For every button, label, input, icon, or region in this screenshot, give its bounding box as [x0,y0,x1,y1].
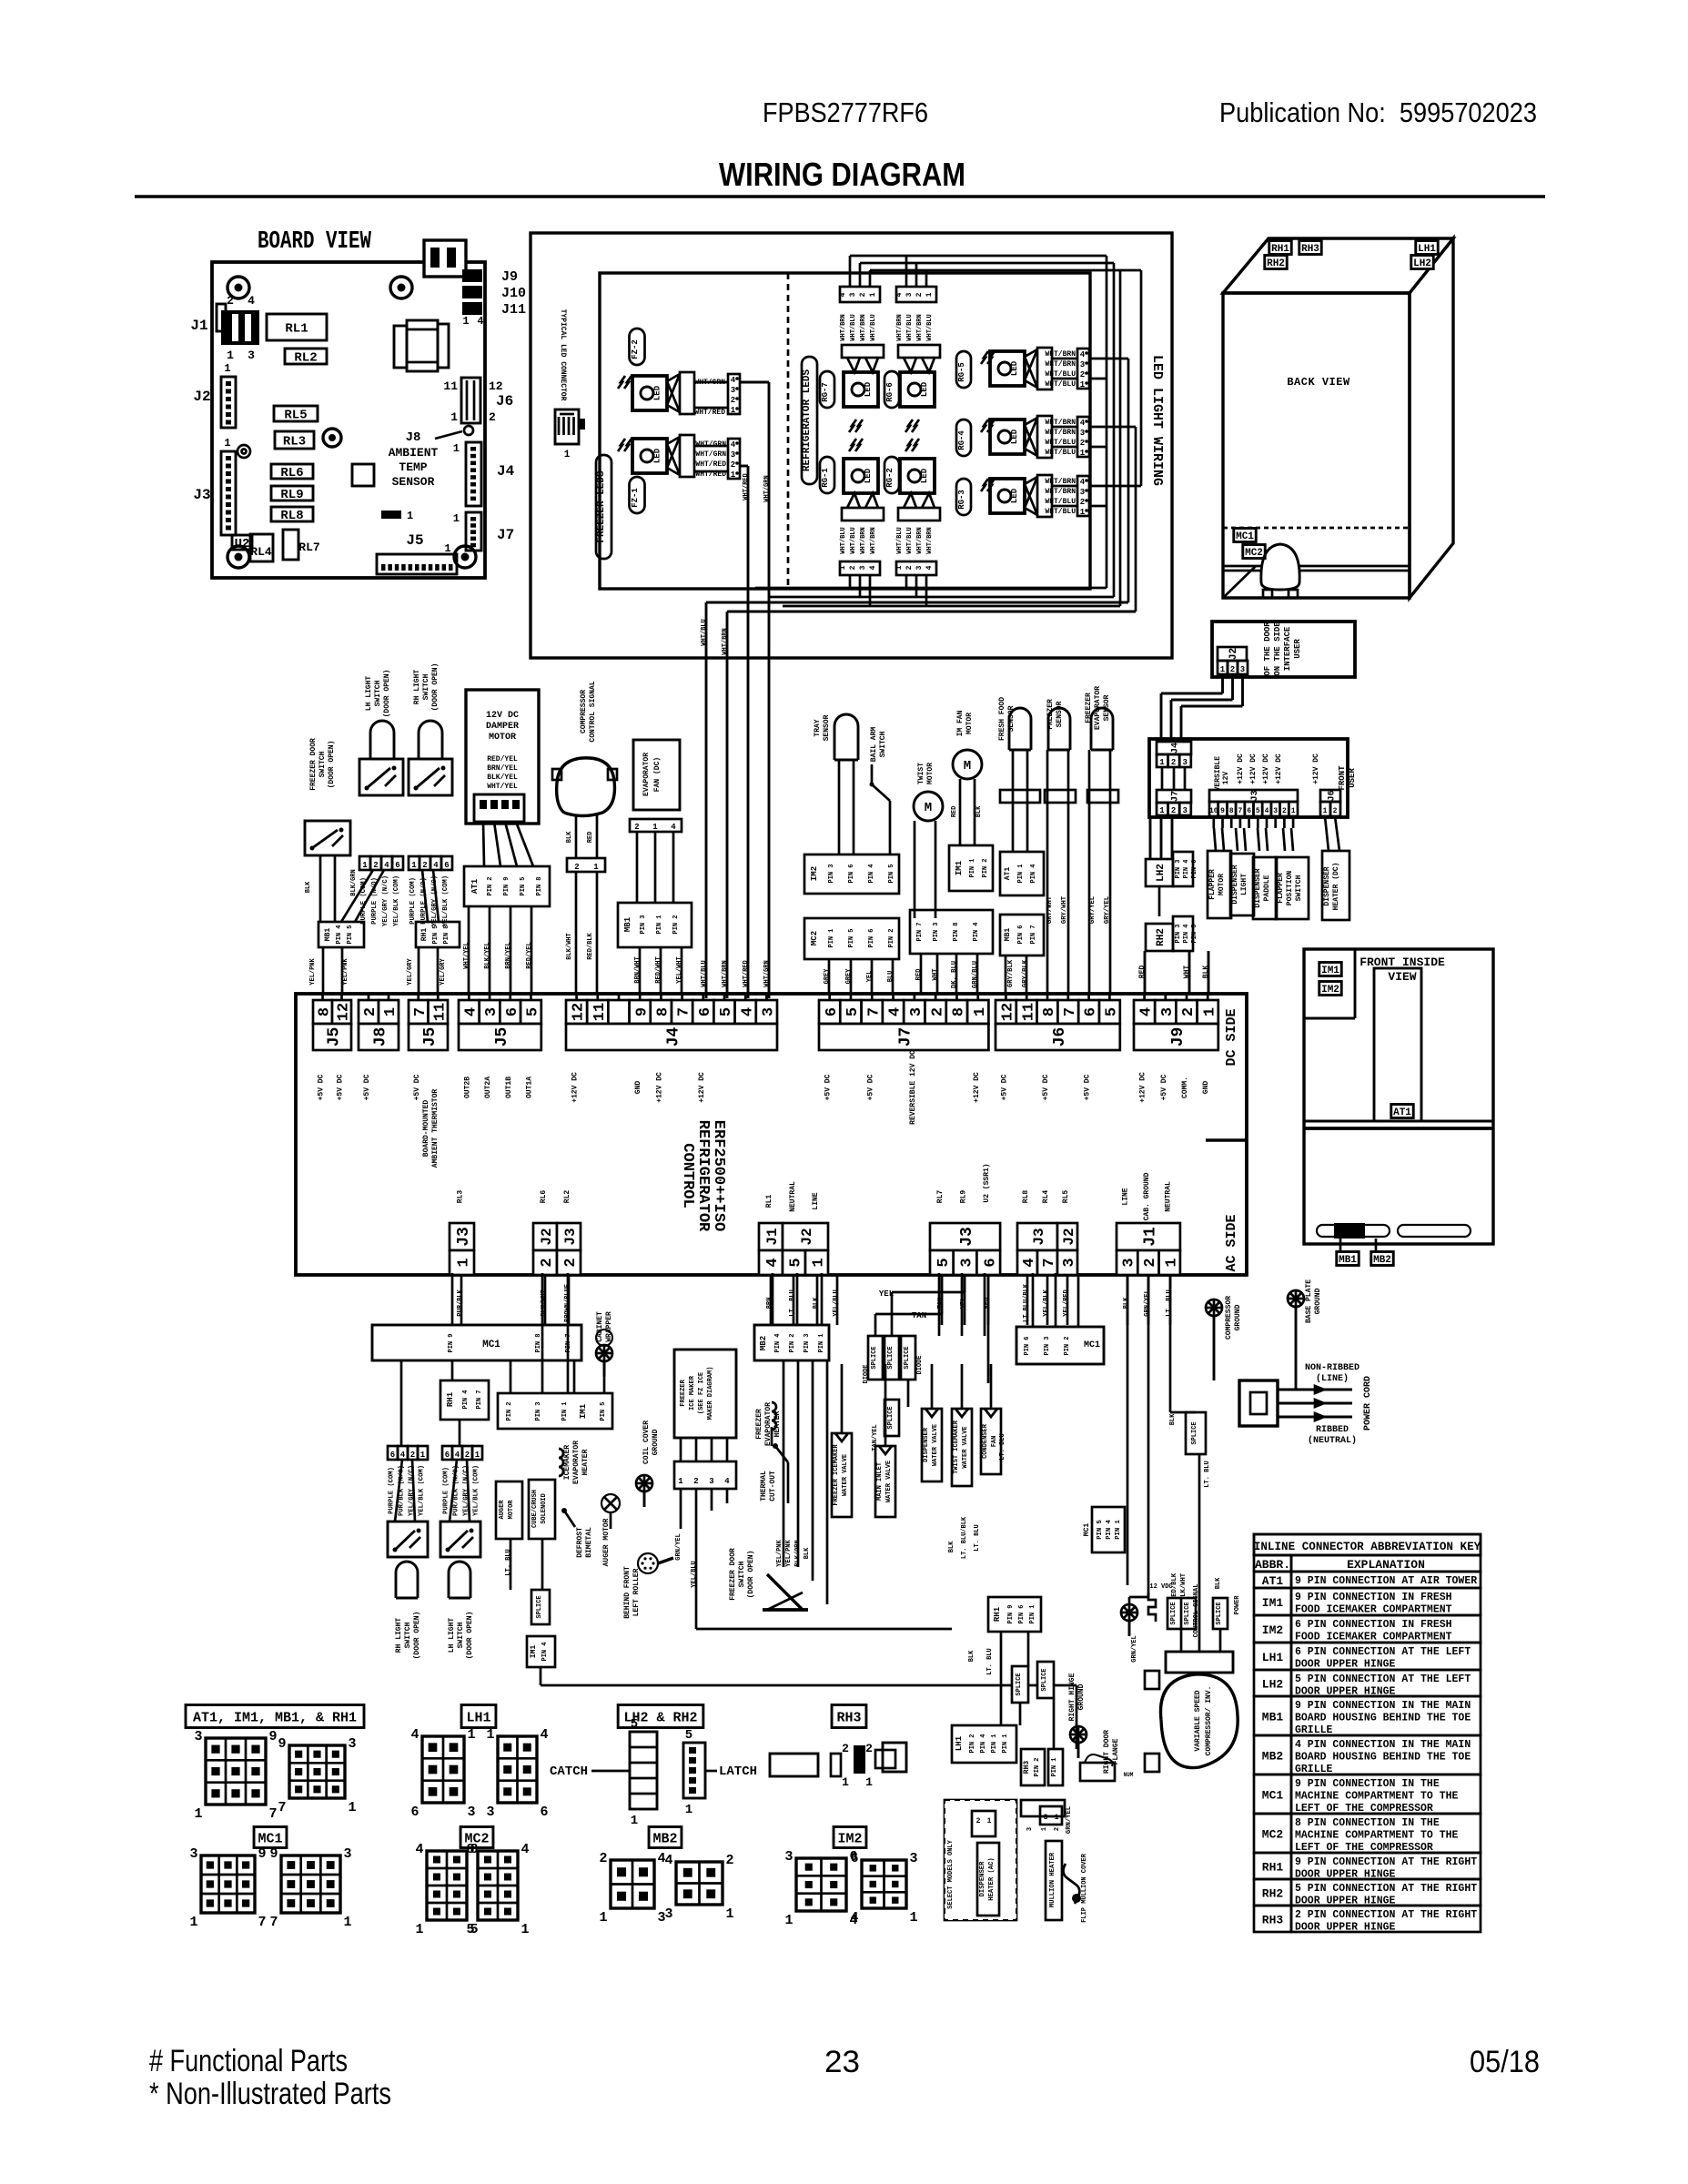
svg-text:SPLICE: SPLICE [536,1595,543,1618]
svg-text:5 PIN CONNECTION AT THE LEFT: 5 PIN CONNECTION AT THE LEFT [1295,1673,1471,1685]
svg-text:1: 1 [1291,807,1296,815]
svg-text:GREY: GREY [824,968,831,985]
svg-text:PIN 2: PIN 2 [1064,1336,1071,1355]
svg-text:2: 2 [422,861,427,870]
svg-text:WHT/BLU: WHT/BLU [1045,449,1076,457]
svg-text:GROUND: GROUND [1077,1683,1086,1710]
svg-text:J6: J6 [1051,1027,1069,1047]
svg-text:SWITCH: SWITCH [457,1622,465,1648]
svg-text:11: 11 [591,1003,609,1021]
svg-text:4: 4 [731,440,736,450]
svg-text:PIN 5: PIN 5 [347,925,354,944]
svg-text:M: M [964,759,971,773]
svg-text:RH1: RH1 [993,1606,1002,1622]
svg-text:WHT/BRN: WHT/BRN [870,527,877,553]
svg-text:WHT/BLU: WHT/BLU [896,527,904,553]
svg-text:TYPICAL LED CONNECTOR: TYPICAL LED CONNECTOR [559,309,567,401]
svg-text:ICEMAKER: ICEMAKER [563,1445,571,1481]
svg-text:USER: USER [1293,639,1302,659]
svg-text:RH2: RH2 [1156,928,1167,946]
svg-text:1: 1 [725,1906,733,1922]
svg-text:4: 4 [671,823,676,832]
svg-text:1: 1 [631,1814,638,1828]
svg-text:4: 4 [664,1853,672,1868]
svg-text:10: 10 [1209,807,1218,815]
svg-text:YEL/GRY (N/C): YEL/GRY (N/C) [382,875,389,926]
svg-text:J6: J6 [1328,790,1338,801]
svg-text:PIN 3: PIN 3 [1175,924,1182,943]
svg-text:1: 1 [224,362,230,375]
svg-text:3: 3 [1061,1258,1078,1267]
svg-text:1: 1 [521,1922,529,1937]
svg-text:RL4: RL4 [250,545,272,559]
svg-text:GRY/BLK: GRY/BLK [1007,959,1015,987]
svg-text:7: 7 [1041,1258,1058,1267]
svg-text:2: 2 [362,1007,379,1016]
svg-text:WHT/RED: WHT/RED [743,473,750,500]
svg-text:6: 6 [395,861,399,870]
svg-text:FREEZER LEDS: FREEZER LEDS [596,470,607,543]
svg-text:PIN 1: PIN 1 [818,1333,825,1352]
svg-text:4: 4 [1021,1258,1038,1267]
svg-text:5 PIN CONNECTION AT THE RIGHT: 5 PIN CONNECTION AT THE RIGHT [1295,1883,1477,1895]
svg-text:BASE PLATE: BASE PLATE [1305,1279,1313,1323]
svg-text:4: 4 [1080,419,1086,428]
svg-text:FPBS2777RF6: FPBS2777RF6 [763,96,928,128]
svg-text:1: 1 [420,1451,426,1460]
svg-text:SWITCH: SWITCH [879,731,887,757]
svg-text:J2: J2 [1228,648,1239,660]
svg-text:1: 1 [784,1913,793,1928]
svg-text:RL3: RL3 [283,435,306,450]
svg-text:11: 11 [1020,1003,1037,1021]
svg-text:BRN/WHT: BRN/WHT [634,956,642,983]
svg-text:PIN 4: PIN 4 [336,925,343,944]
svg-text:2: 2 [562,1258,580,1267]
svg-text:SPLICE: SPLICE [871,1346,878,1369]
svg-text:YEL/BLK (COM): YEL/BLK (COM) [442,875,450,926]
svg-text:OUT2A: OUT2A [484,1077,492,1098]
svg-text:GRN/BLU: GRN/BLU [972,961,979,988]
svg-text:WATER VALVE: WATER VALVE [842,1454,849,1496]
svg-text:PIN 2: PIN 2 [969,1734,976,1753]
svg-text:1: 1 [456,1258,473,1267]
svg-text:3: 3 [849,292,857,297]
svg-text:(DOOR OPEN): (DOOR OPEN) [413,1612,421,1660]
svg-text:9: 9 [278,1736,286,1752]
svg-text:MB1: MB1 [623,916,632,932]
svg-text:NUM: NUM [1124,1772,1134,1778]
svg-text:RH3: RH3 [1262,1914,1284,1927]
svg-text:BRN/YEL: BRN/YEL [505,942,512,968]
svg-text:RED/YEL: RED/YEL [487,755,518,763]
svg-text:1: 1 [1201,1007,1218,1016]
svg-text:FLAPPER: FLAPPER [1277,873,1285,904]
svg-text:3: 3 [486,1805,494,1820]
svg-text:3: 3 [1080,488,1085,497]
svg-text:5: 5 [466,1922,474,1937]
svg-text:2: 2 [599,1851,607,1866]
svg-text:1: 1 [453,512,460,525]
svg-text:LH2: LH2 [1413,258,1431,269]
svg-text:WHT/BLU: WHT/BLU [850,527,857,553]
svg-text:2: 2 [1080,498,1085,507]
svg-text:3: 3 [1182,758,1187,767]
svg-text:HEATER (AC): HEATER (AC) [988,1857,996,1900]
svg-text:1: 1 [453,442,460,455]
svg-text:TRAY: TRAY [814,719,822,736]
svg-text:LED: LED [920,381,929,397]
svg-text:+12V DC: +12V DC [973,1072,981,1103]
svg-text:7: 7 [268,1806,277,1822]
svg-text:MB1: MB1 [1339,1255,1357,1266]
svg-text:NEUTRAL: NEUTRAL [789,1181,797,1212]
svg-text:4: 4 [839,292,847,297]
svg-text:2: 2 [1142,1258,1159,1267]
svg-text:+12V DC: +12V DC [571,1072,580,1103]
svg-text:+5V DC: +5V DC [413,1074,421,1100]
svg-text:1: 1 [987,1817,992,1825]
svg-text:MC1: MC1 [1084,1340,1100,1350]
svg-text:23: 23 [824,2045,860,2079]
svg-text:PIN 4: PIN 4 [980,1734,987,1753]
svg-text:PIN 4: PIN 4 [1030,864,1037,883]
svg-text:LED: LED [864,468,873,483]
svg-text:SPLICE: SPLICE [887,1346,895,1369]
svg-text:LH1: LH1 [1418,244,1436,255]
svg-text:COMPRESSOR/ INV.: COMPRESSOR/ INV. [1205,1686,1213,1756]
svg-text:4: 4 [731,376,736,385]
svg-text:PIN 1: PIN 1 [828,928,835,947]
svg-text:+12V DC: +12V DC [1249,753,1258,784]
svg-text:MULLION HEATER: MULLION HEATER [1049,1852,1056,1907]
svg-text:PIN 6: PIN 6 [1017,925,1025,944]
svg-text:DK. BLU: DK. BLU [951,961,958,988]
svg-text:3: 3 [915,565,924,570]
svg-text:4: 4 [1138,1007,1156,1016]
svg-text:9: 9 [269,1846,278,1862]
svg-text:RL2: RL2 [563,1190,571,1204]
svg-text:WATER VALVE: WATER VALVE [932,1424,939,1466]
svg-text:6 PIN CONNECTION IN FRESH: 6 PIN CONNECTION IN FRESH [1295,1619,1452,1631]
svg-text:RH3: RH3 [836,1710,861,1725]
svg-text:J2: J2 [1061,1228,1077,1245]
svg-text:AT1: AT1 [1004,867,1012,881]
svg-text:YEL/BLK (COM): YEL/BLK (COM) [419,1465,426,1516]
svg-text:1: 1 [869,292,877,297]
svg-text:TAN: TAN [912,1311,926,1320]
svg-text:PIN 1: PIN 1 [969,858,976,877]
svg-text:4: 4 [248,294,255,308]
svg-text:TWIST ICEMAKER: TWIST ICEMAKER [953,1420,960,1474]
svg-text:J3: J3 [1250,790,1260,801]
svg-text:2: 2 [1080,439,1085,448]
svg-text:1: 1 [1220,665,1226,674]
svg-text:OUT1A: OUT1A [525,1077,533,1098]
svg-text:7: 7 [269,1915,278,1930]
svg-text:RL1: RL1 [765,1195,773,1208]
svg-text:VIEW: VIEW [1388,970,1416,984]
svg-text:IM1: IM1 [579,1403,588,1419]
svg-text:IM1: IM1 [530,1645,538,1659]
svg-text:WHT/BRN: WHT/BRN [860,527,867,553]
svg-text:WHT/BLU: WHT/BLU [850,314,857,340]
svg-text:4: 4 [764,1258,782,1267]
svg-text:4: 4 [724,1477,730,1486]
svg-text:POSITION: POSITION [1286,871,1294,906]
svg-text:1: 1 [1055,1814,1059,1822]
svg-text:PURPLE (COM): PURPLE (COM) [443,1467,450,1514]
svg-text:GRY/YEL: GRY/YEL [1089,896,1097,924]
svg-text:BLK/YEL: BLK/YEL [484,942,491,968]
svg-text:(DOOR OPEN): (DOOR OPEN) [431,663,440,712]
svg-text:COMPRESSOR: COMPRESSOR [580,690,588,733]
svg-text:6: 6 [824,1007,841,1016]
svg-text:YEL: YEL [866,971,874,983]
svg-text:RG-2: RG-2 [885,468,895,488]
svg-text:3: 3 [784,1849,793,1865]
svg-text:J7: J7 [1171,791,1181,802]
svg-text:BIMETAL: BIMETAL [585,1527,593,1558]
svg-text:PIN 4: PIN 4 [1106,1520,1113,1540]
svg-text:GRY/WHT: GRY/WHT [1046,895,1054,924]
svg-text:1: 1 [909,1910,917,1926]
svg-text:RG-5: RG-5 [957,362,966,382]
svg-text:J5: J5 [406,532,423,549]
svg-text:1: 1 [362,861,368,870]
svg-text:J1: J1 [190,318,207,334]
svg-text:BOARD-MOUNTED: BOARD-MOUNTED [422,1100,430,1158]
svg-text:4: 4 [869,565,877,570]
svg-text:IM2: IM2 [1262,1623,1284,1637]
svg-text:GREY: GREY [845,968,853,985]
svg-text:3: 3 [731,450,735,460]
svg-text:4 PIN CONNECTION IN THE MAIN: 4 PIN CONNECTION IN THE MAIN [1295,1739,1471,1751]
svg-text:DOOR UPPER HINGE: DOOR UPPER HINGE [1295,1659,1396,1671]
svg-text:WHT/BRN: WHT/BRN [1045,429,1076,437]
svg-text:BLU: BLU [887,971,895,983]
svg-text:# Functional Parts: # Functional Parts [149,2044,348,2078]
svg-text:MB2: MB2 [1373,1255,1391,1266]
svg-text:MC1: MC1 [1083,1523,1091,1537]
svg-text:FREEZER: FREEZER [680,1379,687,1406]
svg-text:RH LIGHT: RH LIGHT [395,1618,403,1653]
svg-text:2: 2 [410,1451,415,1460]
svg-text:RL7: RL7 [936,1190,945,1204]
svg-text:REFRIGERATOR LEDS: REFRIGERATOR LEDS [802,369,813,471]
svg-text:WHT/BRN: WHT/BRN [1045,360,1076,369]
svg-text:WHT/BLU: WHT/BLU [840,527,847,553]
svg-text:12: 12 [1000,1003,1017,1021]
svg-text:(DOOR OPEN): (DOOR OPEN) [383,670,391,718]
svg-text:BLK/WHT: BLK/WHT [566,933,573,959]
svg-text:PIN 7: PIN 7 [1030,925,1037,944]
svg-text:CONDENSER: CONDENSER [982,1423,989,1459]
svg-text:J3: J3 [958,1227,976,1247]
svg-text:J7: J7 [897,1027,915,1047]
svg-text:J3: J3 [193,487,210,503]
svg-text:J8: J8 [406,430,421,445]
svg-text:(LINE): (LINE) [1316,1373,1349,1384]
svg-text:3: 3 [1159,1007,1177,1016]
svg-text:PIN 1: PIN 1 [991,1734,998,1753]
svg-text:SOLENOID: SOLENOID [541,1493,548,1524]
svg-text:SPLICE: SPLICE [1041,1668,1048,1691]
svg-text:+5V DC: +5V DC [318,1074,326,1100]
svg-text:+12V DC: +12V DC [698,1072,706,1103]
svg-text:+5V DC: +5V DC [866,1074,874,1100]
svg-text:9 PIN CONNECTION AT THE RIGHT: 9 PIN CONNECTION AT THE RIGHT [1295,1856,1477,1868]
svg-text:2: 2 [1080,370,1085,379]
svg-text:LT. BLU/BLK: LT. BLU/BLK [961,1516,968,1559]
svg-text:1: 1 [972,1007,989,1016]
svg-text:RED/WHT: RED/WHT [655,956,662,983]
svg-text:3: 3 [1080,429,1085,438]
svg-text:INLINE CONNECTOR ABBREVIATION: INLINE CONNECTOR ABBREVIATION KEY [1254,1541,1481,1553]
svg-text:MOTOR: MOTOR [1218,874,1226,895]
svg-text:3: 3 [1121,1258,1138,1267]
svg-text:3: 3 [194,1729,202,1744]
svg-text:3: 3 [1240,665,1245,674]
svg-text:LED: LED [864,381,873,397]
svg-text:AUGER: AUGER [499,1500,506,1520]
svg-text:7: 7 [865,1007,883,1016]
svg-text:+12V DC: +12V DC [1139,1072,1147,1103]
svg-text:2: 2 [1180,1007,1198,1016]
svg-text:CONTROL: CONTROL [679,1143,696,1208]
svg-text:2: 2 [539,1258,556,1267]
svg-text:8: 8 [1229,807,1234,815]
svg-text:3: 3 [1182,806,1187,815]
svg-text:2: 2 [842,1742,849,1755]
svg-text:PADDLE: PADDLE [1263,875,1271,901]
svg-text:FLANGE: FLANGE [1112,1738,1120,1764]
svg-text:11: 11 [431,1003,449,1021]
svg-text:FRESH FOOD: FRESH FOOD [998,697,1006,741]
svg-text:PIN 5: PIN 5 [520,876,527,895]
svg-text:+5V DC: +5V DC [363,1074,371,1100]
svg-text:9: 9 [268,1729,277,1744]
svg-text:SWITCH: SWITCH [1295,875,1303,901]
svg-text:MC1: MC1 [258,1831,282,1846]
svg-text:WHT/BLU: WHT/BLU [906,527,914,553]
svg-text:PIN 5: PIN 5 [432,925,440,944]
svg-text:YEL/GRY: YEL/GRY [407,957,414,985]
svg-text:YEL/PNK: YEL/PNK [785,1539,793,1566]
svg-text:4: 4 [410,1727,419,1743]
svg-text:4: 4 [925,565,934,570]
svg-text:RED/YEL: RED/YEL [526,942,533,968]
svg-text:MB1: MB1 [1262,1711,1284,1724]
svg-text:MB2: MB2 [1262,1750,1284,1764]
svg-text:+5V DC: +5V DC [1084,1074,1092,1100]
svg-text:LED: LED [1010,429,1019,444]
svg-text:PIN 1: PIN 1 [1115,1520,1122,1540]
svg-text:4: 4 [1080,350,1086,359]
svg-text:WHT/BLU: WHT/BLU [870,314,877,340]
svg-text:PIN 2: PIN 2 [982,858,989,877]
svg-text:3: 3 [1026,1827,1034,1831]
svg-text:RL4: RL4 [1042,1190,1050,1204]
svg-text:SWITCH: SWITCH [738,1561,746,1587]
svg-text:6: 6 [410,1805,419,1820]
svg-text:FREEZER ICEMAKER: FREEZER ICEMAKER [833,1444,840,1506]
svg-text:SELECT MODELS ONLY: SELECT MODELS ONLY [947,1839,955,1908]
svg-text:1: 1 [731,406,736,415]
svg-text:WHT: WHT [932,968,939,981]
svg-text:WHT/BLU: WHT/BLU [926,314,934,340]
svg-text:12V DC: 12V DC [486,711,519,721]
svg-text:RL8: RL8 [1022,1190,1030,1204]
svg-text:PIN 1: PIN 1 [1029,1604,1036,1623]
svg-text:BLK: BLK [968,1650,975,1662]
svg-text:8: 8 [951,1007,968,1016]
svg-text:1: 1 [1080,380,1086,389]
svg-text:BLK/WHT: BLK/WHT [1180,1572,1188,1601]
svg-text:SPLICE: SPLICE [887,1406,895,1429]
svg-text:LH1: LH1 [955,1735,964,1751]
svg-text:DISPENSER: DISPENSER [923,1427,930,1462]
svg-text:MOTOR: MOTOR [489,733,516,743]
svg-text:SPLICE: SPLICE [1170,1602,1178,1624]
svg-text:+12V DC: +12V DC [1312,753,1320,784]
svg-text:4: 4 [1265,807,1269,815]
svg-text:RG-1: RG-1 [821,468,830,488]
svg-text:PIN 2: PIN 2 [1034,1757,1041,1776]
svg-text:LED: LED [653,385,662,400]
svg-text:RL3: RL3 [457,1190,465,1204]
svg-text:2: 2 [915,292,924,297]
svg-text:RL6: RL6 [280,466,303,480]
svg-text:LH LIGHT: LH LIGHT [365,676,373,712]
svg-text:3: 3 [1080,360,1085,369]
svg-text:1: 1 [685,1803,692,1817]
svg-text:FREEZER DOOR: FREEZER DOOR [729,1548,737,1601]
svg-text:SPLICE: SPLICE [1216,1602,1223,1624]
svg-text:3: 3 [1273,807,1278,815]
svg-text:SWITCH: SWITCH [374,680,382,706]
svg-text:FZ-2: FZ-2 [631,339,640,359]
svg-text:MOTOR: MOTOR [926,763,935,784]
svg-text:WHT/BRN: WHT/BRN [722,628,729,654]
svg-text:5: 5 [718,1007,735,1016]
svg-text:(SEE FZ ICE: (SEE FZ ICE [698,1372,705,1414]
svg-text:SWITCH: SWITCH [422,673,430,700]
svg-text:LINE: LINE [812,1192,820,1209]
svg-text:12V: 12V [1222,772,1230,785]
svg-text:BAIL ARM: BAIL ARM [870,727,878,763]
svg-text:DISPENSER: DISPENSER [1323,866,1331,905]
svg-text:2: 2 [574,863,579,872]
svg-text:WHT: WHT [1183,966,1191,979]
svg-text:RL5: RL5 [284,409,307,423]
svg-text:PIN 3: PIN 3 [933,922,940,941]
svg-text:J2: J2 [539,1228,555,1245]
svg-text:YEL/WHT: YEL/WHT [676,956,683,983]
svg-text:4: 4 [455,1451,460,1460]
svg-text:2: 2 [731,396,735,405]
svg-text:J1: J1 [764,1228,781,1245]
svg-text:PIN 7: PIN 7 [916,922,924,941]
svg-text:YEL/BLK (COM): YEL/BLK (COM) [473,1465,480,1516]
svg-text:BOARD HOUSING BEHIND THE TOE: BOARD HOUSING BEHIND THE TOE [1295,1713,1471,1724]
svg-text:1: 1 [407,510,413,522]
svg-text:2: 2 [489,410,496,424]
svg-text:COIL COVER: COIL COVER [642,1421,651,1464]
svg-text:PIN 4: PIN 4 [868,864,875,883]
svg-text:RH2: RH2 [1267,258,1285,269]
svg-text:RH1: RH1 [1262,1861,1284,1875]
